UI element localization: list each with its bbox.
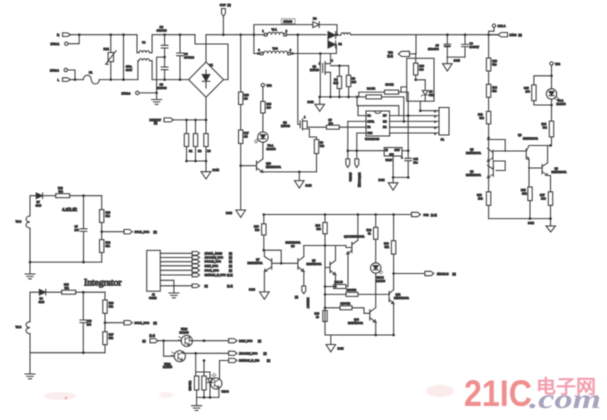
node C6 rail bbox=[464, 33, 467, 36]
svg-text:MMBT2904A: MMBT2904A bbox=[523, 137, 538, 141]
svg-text:CA: CA bbox=[367, 114, 371, 118]
resistor R45 bbox=[524, 76, 552, 105]
svg-text:B1: B1 bbox=[210, 63, 214, 67]
svg-text:R28: R28 bbox=[64, 283, 69, 287]
varistor RV1 bbox=[104, 35, 117, 80]
svg-text:DRLA: DRLA bbox=[498, 24, 506, 28]
svg-text:Q40: Q40 bbox=[354, 318, 359, 322]
resistor R32 bbox=[325, 288, 389, 296]
svg-text:Q2: Q2 bbox=[283, 121, 287, 125]
transistor Q1 MOSFET bbox=[310, 59, 334, 97]
svg-text:MMBT2904A: MMBT2904A bbox=[552, 170, 567, 174]
svg-text:19R: 19R bbox=[522, 192, 527, 196]
svg-text:Q14 MMBT2904A: Q14 MMBT2904A bbox=[344, 234, 365, 238]
svg-text:[1,4]: [1,4] bbox=[150, 334, 155, 338]
wire IC pin1 left bbox=[358, 106, 366, 116]
ground DGN C5 bbox=[443, 57, 460, 71]
wire J1 pin6 bbox=[160, 274, 192, 276]
wire C5 C6 bottoms bbox=[447, 56, 465, 58]
wire J1 pin8 bbox=[160, 285, 192, 287]
connector DETECT down bbox=[295, 271, 310, 308]
svg-text:514: 514 bbox=[492, 89, 497, 93]
wire top rail from N bbox=[71, 34, 138, 36]
svg-text:U19B: U19B bbox=[181, 327, 188, 331]
svg-text:[2]: [2] bbox=[267, 359, 270, 363]
resistor R23 bbox=[100, 196, 111, 232]
wire P w1 bbox=[420, 110, 439, 112]
svg-text:1: 1 bbox=[304, 115, 306, 119]
resistor R24i bbox=[100, 232, 111, 262]
svg-text:DETECT: DETECT bbox=[306, 298, 310, 309]
svg-text:Q8: Q8 bbox=[312, 259, 316, 263]
svg-text:51: 51 bbox=[368, 232, 371, 236]
svg-text:DGN: DGN bbox=[306, 184, 312, 188]
wire P w2 bbox=[390, 115, 439, 117]
node rail R24b bbox=[374, 213, 377, 216]
node CX bottom bbox=[122, 78, 125, 81]
capacitor CX line bbox=[124, 35, 133, 80]
diode D1 upper bbox=[328, 32, 341, 39]
transformer T1-A primary bbox=[223, 29, 326, 36]
svg-text:104/50V: 104/50V bbox=[470, 45, 480, 49]
node rail R17 bbox=[549, 217, 552, 220]
resistor R27 bbox=[103, 323, 114, 353]
svg-text:5: 5 bbox=[435, 133, 437, 135]
wire base rail bbox=[272, 262, 298, 264]
opto U3-A bbox=[255, 132, 276, 151]
wire opto bottom rail bbox=[197, 396, 219, 398]
svg-text:R17: R17 bbox=[540, 193, 545, 197]
connector tag IGNT_PFC out bbox=[229, 339, 262, 343]
node T1 rail left bbox=[253, 33, 256, 36]
node bottom Q12 bbox=[392, 334, 395, 337]
node DETECT R3 bbox=[205, 119, 208, 122]
capacitor C3 bbox=[157, 56, 169, 90]
capacitor C41 bbox=[401, 151, 419, 178]
node C4 top bbox=[179, 33, 182, 36]
resistor R39 bbox=[316, 215, 328, 246]
transformer T1-B primary bbox=[254, 35, 320, 55]
op-amp U5 PWM IC bbox=[365, 111, 390, 141]
regulator U4 78L05 bbox=[384, 148, 402, 162]
wire P w4 bbox=[390, 126, 439, 128]
connector tag ENABLE_M_INB bbox=[229, 358, 271, 362]
wire OCP to rail bbox=[222, 16, 224, 34]
svg-text:DGN: DGN bbox=[338, 347, 344, 351]
svg-text:DB: DB bbox=[383, 125, 387, 129]
svg-text:1M: 1M bbox=[244, 134, 248, 138]
resistor R1 bbox=[184, 120, 193, 161]
wire rail jog over bridge bbox=[195, 35, 228, 80]
svg-text:R18: R18 bbox=[521, 188, 526, 192]
connector DETECT bbox=[150, 118, 174, 125]
svg-text:1m: 1m bbox=[334, 78, 338, 82]
ground DGN cluster bbox=[326, 335, 344, 352]
resistor R29 bbox=[261, 87, 272, 132]
connector tag IGNT bbox=[192, 264, 232, 268]
svg-text:R35: R35 bbox=[254, 225, 259, 229]
transistor Q12 bbox=[389, 274, 409, 336]
svg-text:DGN: DGN bbox=[213, 168, 219, 172]
node R3 bottom bbox=[205, 160, 208, 163]
svg-text:104: 104 bbox=[75, 228, 80, 232]
capacitor C6 bbox=[462, 35, 480, 57]
svg-text:[1]: [1] bbox=[154, 321, 157, 325]
wire Q10 base bbox=[241, 165, 257, 167]
svg-text:D6: D6 bbox=[40, 297, 44, 301]
node enable-ic bbox=[356, 149, 359, 152]
wire reg input rail bbox=[348, 150, 384, 152]
ground DGN reg bbox=[379, 177, 398, 190]
node CX top bbox=[122, 33, 125, 36]
svg-text:ICND: ICND bbox=[510, 33, 517, 37]
svg-text:IN: IN bbox=[385, 148, 388, 152]
svg-text:2: 2 bbox=[286, 29, 288, 33]
connector 110kHz bbox=[346, 151, 353, 182]
pin V12 right bbox=[550, 62, 561, 66]
wire EARL2 to L line bbox=[68, 70, 76, 80]
svg-text:Q5: Q5 bbox=[470, 148, 474, 152]
wire DETECT rail bbox=[174, 119, 206, 121]
svg-text:.com: .com bbox=[529, 384, 601, 414]
ground earth J1 bbox=[169, 293, 179, 298]
pin V12 opto U3 bbox=[261, 83, 272, 87]
svg-text:OCP: OCP bbox=[220, 3, 226, 7]
wire box bottom to w1 bbox=[419, 101, 421, 111]
resistor R52 bbox=[478, 111, 491, 137]
wire rail C2 to jog bbox=[165, 34, 195, 36]
node gnd rail bbox=[392, 176, 395, 179]
svg-text:U2-A: U2-A bbox=[558, 99, 564, 103]
svg-text:PANTA_ANEN: PANTA_ANEN bbox=[205, 251, 223, 255]
svg-text:R38: R38 bbox=[419, 64, 424, 68]
svg-text:OUT: OUT bbox=[394, 148, 400, 152]
svg-text:DGN: DGN bbox=[528, 221, 534, 225]
connector tag ENABLE_M bbox=[192, 273, 233, 277]
transistor Q40 bbox=[348, 308, 376, 335]
wire J1 pin3 bbox=[160, 261, 192, 263]
connector V12 tag bbox=[388, 51, 410, 59]
opto U2-A bbox=[546, 89, 566, 106]
choke T4 bbox=[137, 35, 165, 80]
resistor R8h horizontal bbox=[359, 82, 408, 150]
svg-text:[1]: [1] bbox=[154, 121, 157, 125]
resistor R14 bbox=[486, 84, 497, 111]
node ENABLE junction bbox=[392, 272, 395, 275]
svg-text:DGN: DGN bbox=[226, 211, 232, 215]
node emitter rail ground bbox=[298, 171, 301, 174]
pin EARL1 bbox=[51, 42, 69, 46]
svg-text:R2: R2 bbox=[198, 149, 202, 153]
node int1 gnd bbox=[29, 261, 32, 264]
resistor R6 bbox=[346, 66, 356, 97]
svg-text:514: 514 bbox=[492, 63, 497, 67]
node rail R36 bbox=[392, 213, 395, 216]
svg-text:R16: R16 bbox=[477, 193, 482, 197]
svg-text:110kHz: 110kHz bbox=[349, 173, 353, 183]
svg-text:R32 512: R32 512 bbox=[347, 288, 357, 292]
svg-text:4: 4 bbox=[290, 48, 292, 52]
svg-text:1: 1 bbox=[332, 59, 334, 63]
svg-text:[1]: [1] bbox=[264, 351, 267, 355]
capacitor C4 bbox=[177, 35, 195, 80]
svg-text:NE: NE bbox=[383, 119, 387, 123]
svg-text:[1]: [1] bbox=[229, 264, 232, 268]
wire R39 down to Q8 base bbox=[325, 246, 330, 268]
transistor Q9 bbox=[529, 146, 567, 192]
resistor R28 bbox=[62, 283, 105, 295]
node EARL2/L junction bbox=[74, 78, 77, 81]
svg-text:IRF840: IRF840 bbox=[281, 124, 290, 128]
connector N bbox=[57, 33, 71, 37]
connector ENABLE-ic bbox=[355, 151, 362, 187]
resistor R46 bbox=[239, 35, 250, 130]
node 110k bbox=[347, 149, 350, 152]
svg-text:EARL3: EARL3 bbox=[122, 91, 131, 95]
node T1-B right bbox=[319, 52, 322, 55]
wire gnd rail bbox=[393, 176, 408, 178]
svg-text:[1]: [1] bbox=[228, 3, 231, 7]
svg-text:ADCONV_PFC: ADCONV_PFC bbox=[239, 351, 257, 355]
svg-text:PFCA_PFC: PFCA_PFC bbox=[205, 268, 219, 272]
svg-text:R24: R24 bbox=[106, 241, 111, 245]
svg-text:[1]: [1] bbox=[154, 230, 157, 234]
pin EARL2 bbox=[50, 68, 68, 72]
wire T1-B to Q1 drain bbox=[320, 54, 336, 62]
wire P w5 bbox=[390, 133, 439, 136]
svg-text:R26: R26 bbox=[109, 301, 114, 305]
svg-text:BZV: BZV bbox=[429, 93, 434, 97]
ground DGN mirror bbox=[528, 219, 555, 232]
resistor R35 bbox=[254, 215, 266, 251]
svg-text:Q8: Q8 bbox=[518, 133, 522, 137]
node w3 tap bbox=[419, 109, 422, 112]
wire box stub bbox=[415, 54, 417, 58]
svg-text:ETD29: ETD29 bbox=[284, 20, 293, 24]
svg-text:Q7: Q7 bbox=[256, 257, 260, 261]
wire U19B out bbox=[189, 337, 228, 340]
opto U19-A bbox=[163, 351, 185, 370]
node rail R35 bbox=[263, 213, 266, 216]
svg-text:[h]: [h] bbox=[143, 339, 146, 343]
wire opto feed down bbox=[164, 341, 175, 357]
node rail R39 bbox=[324, 213, 327, 216]
wire EARL3 to C2/C3 midpoint bbox=[139, 57, 164, 93]
svg-text:V12: V12 bbox=[267, 83, 273, 87]
wire P12 rail bbox=[264, 214, 412, 216]
node DETECT R2 bbox=[194, 119, 197, 122]
wire Q7 base tie bbox=[264, 250, 281, 263]
node R2 bottom bbox=[194, 160, 197, 163]
pink smudge left bbox=[44, 392, 76, 400]
transistor Q8m bbox=[518, 133, 551, 187]
connector OCP bbox=[220, 3, 231, 16]
svg-text:V12: V12 bbox=[388, 51, 393, 55]
node C3 bottom bbox=[163, 78, 166, 81]
svg-text:ENABLE_M_INB: ENABLE_M_INB bbox=[239, 359, 260, 363]
node PFC tap1 bbox=[100, 230, 103, 233]
svg-text:C41: C41 bbox=[413, 157, 418, 161]
svg-text:EL817S: EL817S bbox=[557, 102, 566, 106]
wire Q8 base col down bbox=[324, 268, 326, 336]
transistor U18-B bbox=[211, 378, 229, 393]
resistor R2 bbox=[193, 120, 202, 161]
svg-text:762: 762 bbox=[543, 126, 548, 130]
wire reg out bbox=[402, 150, 408, 152]
resistor R78a bbox=[188, 353, 199, 397]
svg-text:R14: R14 bbox=[492, 85, 497, 89]
wire R47 node down bbox=[240, 166, 242, 210]
svg-text:500: 500 bbox=[255, 228, 260, 232]
svg-text:ADCONV_PFC: ADCONV_PFC bbox=[205, 256, 223, 260]
resistor R16 bbox=[477, 192, 491, 219]
svg-text:1M: 1M bbox=[244, 96, 248, 100]
svg-text:R10: R10 bbox=[492, 59, 497, 63]
wire Q2 drain to R7 bbox=[307, 126, 326, 128]
ground earth optos bbox=[192, 397, 202, 410]
node reg out bbox=[407, 149, 410, 152]
svg-text:D7: D7 bbox=[37, 200, 41, 204]
svg-text:IGNT_PFC: IGNT_PFC bbox=[239, 339, 252, 343]
svg-text:PFCA_PFC: PFCA_PFC bbox=[135, 230, 150, 234]
ground DGN Q10 bbox=[295, 172, 312, 188]
svg-text:[1]: [1] bbox=[229, 251, 232, 255]
winding T1-C sense1 bbox=[16, 216, 31, 228]
connector J1 CON8 bbox=[147, 250, 161, 300]
transistor Q4 bbox=[286, 241, 304, 272]
svg-text:PFCA_PFC: PFCA_PFC bbox=[135, 321, 150, 325]
wire bottom rail after fuse bbox=[99, 79, 138, 81]
svg-text:Q9: Q9 bbox=[555, 167, 559, 171]
svg-text:OUTA: OUTA bbox=[367, 119, 374, 123]
svg-text:R22: R22 bbox=[58, 186, 63, 190]
node R6 bottom bbox=[347, 96, 350, 99]
wire 110kHz vertical bbox=[347, 121, 349, 150]
resistor R26 bbox=[103, 292, 114, 323]
svg-text:1R2: 1R2 bbox=[541, 196, 546, 200]
node D2 rail bbox=[336, 33, 339, 36]
svg-text:RF: RF bbox=[383, 114, 387, 118]
bridge rectifier B1 bbox=[189, 62, 224, 97]
svg-text:R47: R47 bbox=[244, 131, 249, 135]
svg-text:[1]: [1] bbox=[519, 33, 522, 37]
svg-text:R46: R46 bbox=[244, 93, 249, 97]
ground earth AC input bbox=[152, 93, 162, 104]
svg-text:MMBT2904A: MMBT2904A bbox=[466, 173, 481, 177]
svg-text:Q10: Q10 bbox=[266, 162, 271, 166]
wire rail to Q2 gate bbox=[298, 35, 300, 125]
node Q7 collector bbox=[263, 249, 266, 252]
svg-text:100: 100 bbox=[329, 121, 334, 125]
diode D6 bbox=[30, 289, 62, 321]
svg-text:T1-B: T1-B bbox=[16, 220, 22, 224]
svg-text:EL817S: EL817S bbox=[376, 279, 385, 283]
ground earth int1 bbox=[25, 262, 35, 279]
node source rail left bbox=[318, 96, 321, 99]
node opto feed bbox=[162, 339, 165, 342]
resistor R3 bbox=[204, 134, 211, 161]
svg-text:C6: C6 bbox=[470, 42, 474, 46]
svg-text:MMBT2904A: MMBT2904A bbox=[466, 151, 481, 155]
svg-text:R27: R27 bbox=[109, 333, 114, 337]
svg-text:T1-A: T1-A bbox=[272, 29, 278, 32]
svg-text:U19A: U19A bbox=[164, 362, 171, 366]
node Ra left bbox=[324, 285, 327, 288]
svg-text:MMBT2904A: MMBT2904A bbox=[266, 165, 281, 169]
svg-text:EL817S: EL817S bbox=[163, 365, 172, 369]
connector tag ADCONV out bbox=[229, 351, 267, 355]
wire EARL1 to rail bbox=[68, 35, 79, 44]
svg-text:R78 512: R78 512 bbox=[188, 380, 192, 390]
svg-text:R8: R8 bbox=[352, 77, 356, 81]
transistor Q2 MOSFET bbox=[281, 115, 317, 137]
svg-text:[1]: [1] bbox=[229, 260, 232, 264]
node c41 gnd bbox=[407, 176, 410, 179]
svg-text:DGN: DGN bbox=[249, 288, 255, 292]
svg-text:1: 1 bbox=[262, 29, 264, 33]
node R47 bottom bbox=[239, 164, 242, 167]
node Q9 base bbox=[528, 167, 530, 169]
transistor Q10 bbox=[257, 159, 282, 173]
node R45 top bbox=[550, 75, 553, 78]
svg-text:472/440: 472/440 bbox=[157, 29, 168, 33]
svg-text:C5: C5 bbox=[436, 43, 440, 47]
wire h-in to optos bbox=[158, 340, 181, 342]
svg-text:474/630: 474/630 bbox=[184, 56, 195, 60]
svg-text:R34: R34 bbox=[542, 122, 547, 126]
connector PFCA_PFC 1 bbox=[102, 230, 157, 235]
svg-text:180: 180 bbox=[352, 80, 357, 84]
svg-text:R3: R3 bbox=[207, 149, 211, 153]
node Q8m collector join bbox=[549, 144, 552, 147]
svg-text:[1]: [1] bbox=[229, 256, 232, 260]
svg-text:4: 4 bbox=[435, 128, 437, 130]
connector P1 bbox=[435, 108, 450, 142]
node junction N/EARL1 bbox=[78, 33, 81, 36]
svg-text:R4 101: R4 101 bbox=[367, 86, 376, 90]
wire U19A out bbox=[182, 352, 228, 355]
wire Q4 collector rail2 bbox=[304, 246, 352, 248]
svg-text:EARL1: EARL1 bbox=[51, 42, 60, 46]
connector PFCA_PFC 2 bbox=[105, 321, 157, 326]
node P w3 tap bbox=[403, 120, 406, 123]
svg-text:1: 1 bbox=[435, 111, 437, 113]
svg-text:1R2: 1R2 bbox=[478, 196, 483, 200]
svg-text:Q6: Q6 bbox=[470, 170, 474, 174]
svg-text:FB: FB bbox=[367, 125, 371, 129]
node C10 top bbox=[82, 291, 85, 294]
pin EARL3 bbox=[122, 91, 140, 95]
resistor R24b bbox=[367, 215, 378, 263]
svg-text:MMBT2904A: MMBT2904A bbox=[348, 321, 363, 325]
svg-text:DGN: DGN bbox=[379, 178, 385, 182]
resistor R36 bbox=[384, 215, 396, 274]
node OCP rail bbox=[222, 33, 225, 36]
svg-text:4.6/2.5k: 4.6/2.5k bbox=[62, 207, 78, 212]
resistor R34 bbox=[542, 99, 554, 145]
node C7 top bbox=[82, 194, 85, 197]
wire R78 tops bbox=[197, 361, 210, 373]
node U19A out bbox=[194, 352, 197, 355]
node bottom Q40 bbox=[374, 334, 377, 337]
connector tag pin8 bbox=[192, 284, 233, 288]
svg-text:500: 500 bbox=[317, 227, 322, 231]
resistor R5 bbox=[334, 66, 342, 97]
svg-text:P12: P12 bbox=[424, 213, 430, 217]
svg-text:F1: F1 bbox=[89, 71, 93, 75]
svg-text:512: 512 bbox=[106, 214, 111, 218]
svg-text:R33 512: R33 512 bbox=[341, 302, 351, 306]
